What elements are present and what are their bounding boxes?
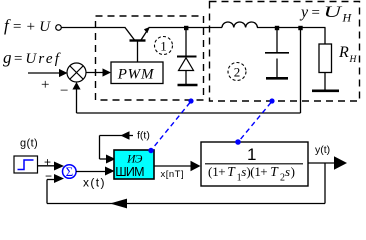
svg-text:H: H bbox=[349, 55, 358, 65]
junction dot C bbox=[298, 26, 302, 30]
wire from terminal to transistor bbox=[62, 27, 126, 29]
wire PWM element to TF block bbox=[154, 165, 192, 167]
svg-text:y: y bbox=[299, 4, 309, 21]
output wire bbox=[308, 162, 335, 164]
PWM block bbox=[111, 62, 163, 84]
feedback wire bottom bbox=[47, 203, 325, 205]
svg-text:2: 2 bbox=[234, 65, 241, 80]
diode VD bbox=[177, 30, 198, 85]
arrow into summator upper bbox=[54, 162, 64, 171]
svg-text:f(t): f(t) bbox=[137, 130, 150, 142]
top wire transistor to inductor bbox=[149, 27, 223, 29]
svg-text:=: = bbox=[311, 5, 321, 21]
label circled 1 bbox=[155, 37, 173, 55]
feedback riser bbox=[46, 180, 48, 204]
wire inductor to RH bbox=[257, 27, 326, 29]
feedback wire horizontal bbox=[77, 112, 301, 114]
svg-text:PWM: PWM bbox=[117, 67, 155, 83]
svg-text:g: g bbox=[3, 48, 12, 67]
g input arrow to multiplier bbox=[28, 72, 60, 74]
svg-text:+: + bbox=[41, 77, 49, 93]
wire step to summator bbox=[38, 165, 56, 167]
svg-text:x(t): x(t) bbox=[83, 176, 106, 190]
blue step waveform bbox=[18, 160, 34, 170]
converter dashed box 1 bbox=[96, 16, 204, 100]
multiplier circle bbox=[67, 63, 86, 82]
summator bbox=[63, 165, 77, 179]
svg-text:g(t): g(t) bbox=[20, 138, 38, 150]
label circled 2 bbox=[228, 63, 246, 81]
svg-text:−: − bbox=[60, 83, 68, 99]
svg-text:=Uref: =Uref bbox=[13, 51, 61, 67]
capacitor C bbox=[265, 30, 289, 78]
svg-text:=+U: =+U bbox=[12, 19, 54, 35]
svg-text:): ) bbox=[291, 164, 295, 179]
arrow multiplier to PWM bbox=[86, 72, 104, 74]
step source block bbox=[14, 156, 38, 173]
input terminal bbox=[56, 25, 62, 31]
svg-text:R: R bbox=[338, 44, 349, 61]
svg-text:+: + bbox=[218, 164, 225, 179]
denominator (1+T1s)(1+T2s) bbox=[208, 164, 295, 184]
svg-text:Σ: Σ bbox=[66, 164, 74, 179]
resistor RH bbox=[324, 28, 326, 45]
ground bar RH bbox=[312, 90, 339, 93]
svg-text:y(t): y(t) bbox=[315, 144, 330, 156]
svg-text:H: H bbox=[342, 11, 353, 25]
svg-text:ИЭ: ИЭ bbox=[126, 154, 143, 166]
blue annotation line 1 bbox=[153, 103, 191, 149]
svg-text:1: 1 bbox=[160, 39, 167, 54]
f(t) wire with left arrow bbox=[100, 135, 134, 137]
feedback left arrow on bottom wire bbox=[110, 199, 127, 209]
svg-text:1: 1 bbox=[247, 145, 256, 164]
svg-text:+: + bbox=[44, 155, 51, 169]
arrow into PWM element lower bbox=[105, 167, 115, 176]
junction dot B bbox=[275, 26, 279, 30]
filter dashed box 2 bbox=[210, 2, 360, 102]
arrow into TF block bbox=[191, 161, 201, 171]
blue dot 4 on PWM block corner bbox=[148, 148, 153, 153]
output big arrow bbox=[334, 156, 347, 170]
feedback wire vertical right bbox=[300, 28, 302, 113]
arrow into summator lower bbox=[54, 174, 64, 183]
feedback wire down bbox=[324, 163, 326, 204]
blue dot 2 on box bottom bbox=[269, 98, 274, 103]
svg-text:s: s bbox=[285, 164, 290, 179]
feedback wire vertical left bbox=[76, 89, 78, 113]
arrow into PWM element upper bbox=[106, 155, 116, 164]
blue annotation line 2 bbox=[239, 103, 271, 142]
svg-text:x[nT]: x[nT] bbox=[161, 169, 185, 180]
PWM key element block (cyan) bbox=[114, 150, 154, 179]
svg-text:U: U bbox=[324, 4, 344, 21]
blue dot 1 on box bottom bbox=[188, 98, 193, 103]
blue dot 3 on TF block bbox=[235, 139, 241, 145]
transfer function block bbox=[201, 142, 308, 186]
feedback arrow into multiplier bottom bbox=[72, 82, 80, 90]
wire summator to PWM element bbox=[76, 171, 106, 173]
inductor L bbox=[222, 22, 257, 28]
junction dot A bbox=[184, 26, 188, 30]
svg-text:−: − bbox=[45, 169, 52, 183]
transistor VT bbox=[125, 27, 150, 62]
svg-text:+: + bbox=[260, 164, 267, 179]
svg-text:ШИМ: ШИМ bbox=[115, 165, 144, 179]
